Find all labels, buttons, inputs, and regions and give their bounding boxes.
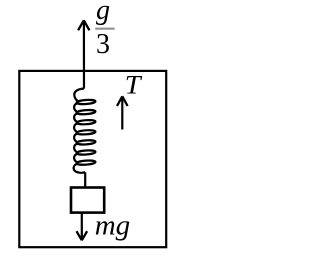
svg-text:3: 3 (96, 29, 110, 60)
svg-text:g: g (96, 0, 110, 26)
svg-text:mg: mg (95, 210, 130, 242)
svg-text:T: T (125, 71, 142, 100)
